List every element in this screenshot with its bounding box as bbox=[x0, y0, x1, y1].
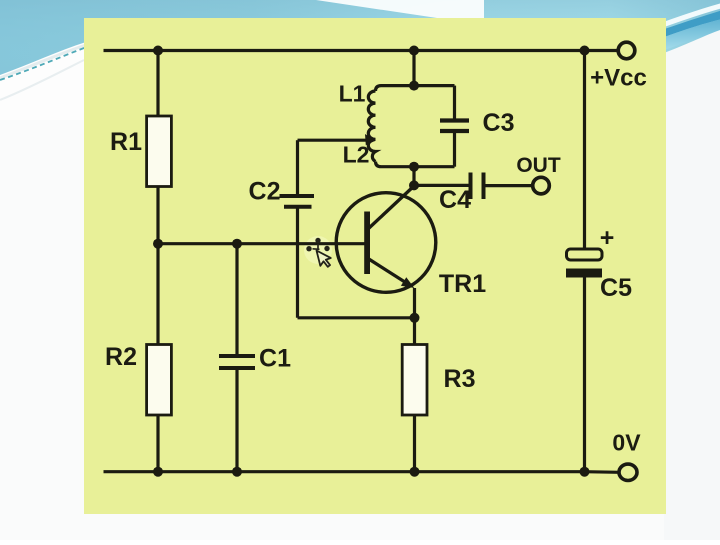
resistor R2 bbox=[147, 345, 172, 416]
svg-text:C3: C3 bbox=[483, 109, 515, 137]
wire top rail bbox=[104, 49, 619, 52]
node C top rail right bbox=[580, 46, 590, 56]
wire emitter to R3 bbox=[413, 288, 416, 345]
capacitor C5 bottom plate bbox=[566, 269, 602, 278]
node base left bbox=[153, 239, 163, 249]
cursor glow halo bbox=[304, 236, 332, 264]
svg-text:C5: C5 bbox=[600, 274, 632, 302]
svg-text:C2: C2 bbox=[249, 178, 281, 206]
faint lower curve bbox=[0, 60, 84, 100]
wire right rail lower bbox=[583, 277, 586, 472]
node emitter bbox=[410, 313, 420, 323]
dashed teal curve bbox=[0, 26, 170, 80]
terminal OUT circle bbox=[533, 177, 550, 194]
resistor R1 bbox=[147, 116, 172, 187]
wire C1 top lead bbox=[235, 244, 238, 356]
capacitor C2 plates bbox=[280, 196, 315, 207]
inductor L1/L2 coil bbox=[368, 91, 375, 162]
svg-text:TR1: TR1 bbox=[439, 270, 486, 298]
swoosh dark blue band bbox=[628, 9, 720, 49]
svg-text:OUT: OUT bbox=[516, 154, 561, 177]
transistor TR1 bbox=[336, 186, 436, 293]
wire C1 bottom lead bbox=[235, 368, 238, 472]
wire coil tap bbox=[298, 139, 367, 142]
swoosh top-right: white line bbox=[630, 5, 720, 37]
svg-text:0V: 0V bbox=[612, 430, 641, 456]
wire tank drop bbox=[412, 51, 415, 86]
wire tank top bbox=[376, 86, 455, 91]
coil tap arrowhead bbox=[365, 134, 375, 145]
wire C4 left lead bbox=[414, 184, 471, 187]
svg-text:C4: C4 bbox=[439, 186, 471, 214]
svg-text:L2: L2 bbox=[343, 142, 370, 168]
wire collector drop bbox=[412, 167, 415, 186]
node B top rail tank bbox=[409, 46, 419, 56]
wire C4 right lead bbox=[484, 184, 533, 187]
svg-text:+Vcc: +Vcc bbox=[590, 65, 647, 92]
terminal +Vcc circle bbox=[618, 42, 635, 59]
wire C2 lower lead bbox=[296, 207, 299, 318]
node tank bottom bbox=[409, 162, 419, 172]
wire C2 upper lead bbox=[296, 140, 299, 196]
wire bottom rail bbox=[104, 470, 585, 473]
wire tank bottom bbox=[376, 162, 455, 167]
capacitor C4 plates bbox=[471, 173, 484, 200]
wire R3 bottom lead bbox=[413, 415, 416, 472]
terminal 0V circle bbox=[619, 464, 637, 480]
node bottom rail R2 bbox=[153, 467, 163, 477]
swoosh mid blue band bbox=[632, 18, 720, 60]
wire left rail upper bbox=[156, 51, 159, 118]
white wedge top middle bbox=[316, 0, 484, 25]
wire C3 bottom lead bbox=[453, 131, 456, 167]
wire left rail lower bbox=[156, 415, 159, 472]
hill soft shade bbox=[0, 23, 186, 78]
capacitor C1 plates bbox=[219, 356, 255, 368]
svg-text:L1: L1 bbox=[339, 81, 366, 107]
svg-text:R1: R1 bbox=[110, 128, 142, 156]
cursor sparkle icon bbox=[306, 238, 332, 269]
node base C1 bbox=[232, 239, 242, 249]
capacitor C5 electrolytic top plate bbox=[567, 249, 603, 260]
svg-text:+: + bbox=[600, 224, 615, 252]
node bottom rail C1 bbox=[232, 467, 242, 477]
node bottom rail R3 bbox=[410, 467, 420, 477]
svg-text:C1: C1 bbox=[259, 345, 291, 373]
yellow schematic panel bbox=[84, 18, 666, 514]
node tank top bbox=[409, 81, 419, 91]
node collector C4 bbox=[409, 180, 419, 190]
white hill lower-left bbox=[0, 20, 186, 120]
right sliver page bbox=[664, 30, 720, 540]
svg-text:R3: R3 bbox=[444, 365, 476, 393]
capacitor C3 plates bbox=[440, 121, 469, 132]
wire C3 top lead bbox=[453, 86, 456, 121]
svg-text:R2: R2 bbox=[105, 343, 137, 371]
node A top rail left bbox=[153, 46, 163, 56]
wire 0V lead bbox=[585, 470, 620, 474]
resistor R3 bbox=[402, 345, 427, 416]
node bottom rail right bbox=[580, 467, 590, 477]
wire right rail upper bbox=[583, 51, 586, 251]
wire left rail mid bbox=[156, 186, 159, 345]
wire feedback bottom bbox=[298, 316, 415, 319]
sky band top bbox=[0, 0, 720, 80]
wire base bbox=[158, 242, 367, 245]
